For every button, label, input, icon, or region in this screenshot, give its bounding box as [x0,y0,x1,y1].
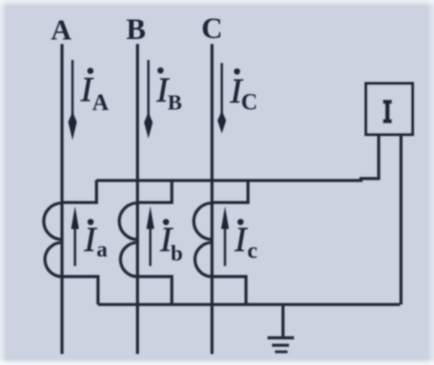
svg-text:C: C [201,13,222,45]
svg-text:A: A [92,90,109,115]
svg-text:b: b [171,241,183,266]
svg-text:I: I [83,221,97,259]
svg-text:C: C [241,90,258,115]
svg-text:A: A [51,16,72,47]
svg-text:a: a [97,237,108,262]
svg-text:I: I [234,221,248,259]
svg-text:B: B [168,91,182,115]
svg-text:c: c [247,238,257,263]
svg-text:B: B [126,14,146,46]
